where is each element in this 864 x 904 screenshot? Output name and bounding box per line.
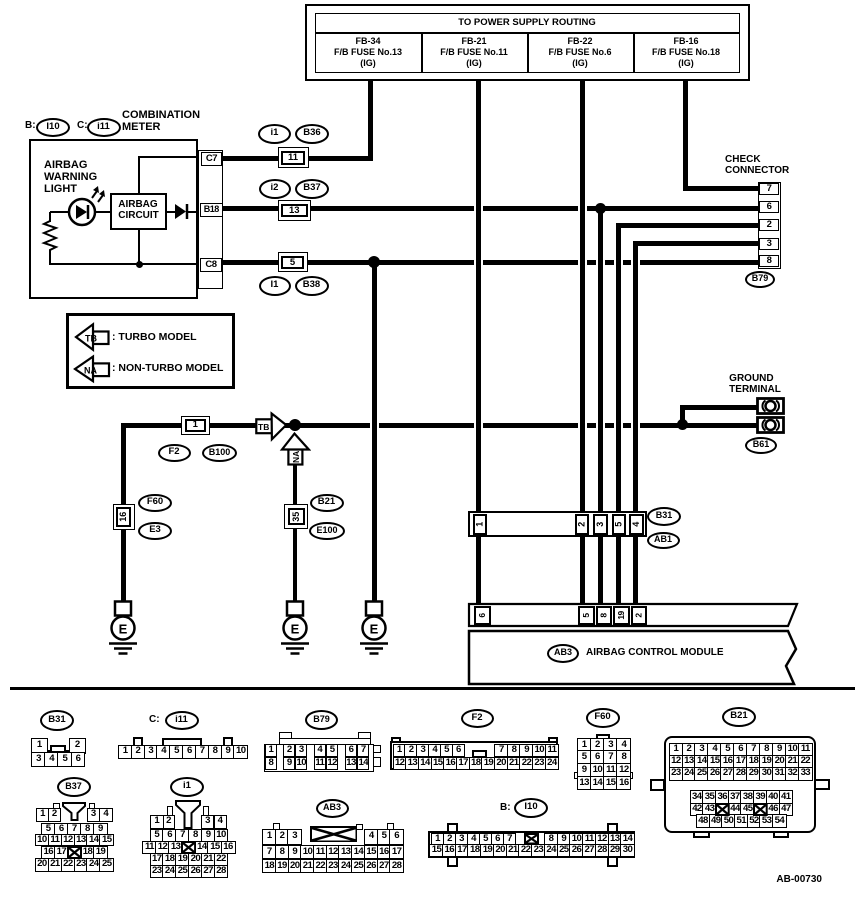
fuse label FB-16: [673, 37, 698, 47]
wire led to circuit: [93, 211, 111, 213]
label C:: [77, 121, 88, 132]
connector label I10: [36, 118, 70, 137]
i1 key way: [175, 800, 201, 829]
connector label i11: [87, 118, 121, 137]
connector 13 (i2/B37): [278, 200, 312, 221]
junction C8/E3: [368, 256, 380, 268]
wire bottom horizontal to C8: [49, 263, 201, 265]
combination meter box: [29, 139, 198, 299]
ground E2: [279, 600, 311, 658]
connector pinout i1: [0, 0, 1, 1]
junction meter bottom: [136, 261, 143, 268]
connector label B79: [745, 271, 775, 288]
wire E1 ground drop: [121, 425, 126, 602]
NA arrow (non-turbo model wire): [279, 431, 311, 466]
wire E2 ground drop: [293, 463, 298, 602]
ground E1: [107, 600, 139, 658]
power box title divider: [315, 32, 740, 34]
connector pinout B37: [0, 0, 1, 1]
wire circuit bottom vertical: [138, 229, 140, 265]
power supply routing box: [305, 4, 750, 81]
title TO POWER SUPPLY ROUTING: [458, 18, 596, 28]
label COMBINATION METER: [122, 110, 200, 134]
label AIRBAG CONTROL MODULE: [586, 648, 724, 659]
connector label I1: [259, 276, 291, 296]
wire circuit top vertical: [138, 157, 140, 194]
power box col divider 2: [527, 32, 529, 73]
drawing number AB-00730: [776, 875, 822, 886]
svg-text:E: E: [370, 622, 379, 637]
wire fuse4 to pin7: [683, 186, 759, 191]
section divider: [10, 687, 855, 690]
wire check pin3 drop: [633, 243, 638, 605]
meter connector strip: [198, 150, 223, 289]
label CHECK CONNECTOR: [725, 155, 789, 177]
connector label i1: [258, 124, 291, 144]
label GROUND TERMINAL: [729, 374, 781, 396]
junction B18/check: [595, 203, 606, 214]
connector pinout B31: [0, 0, 1, 1]
connector label B37: [295, 179, 329, 199]
connector 35 (B21/E100): [284, 504, 308, 529]
connector pinout AB3: [0, 0, 1, 1]
wire check pin2 run: [616, 223, 759, 228]
connector label B31: [647, 507, 681, 526]
wire C8 run: [223, 260, 759, 265]
connector pinout F60: [0, 0, 1, 1]
airbag circuit box: [110, 193, 167, 230]
label B:: [25, 121, 36, 132]
ground terminal upper: [756, 397, 785, 415]
label AIRBAG WARNING LIGHT: [44, 160, 97, 196]
wire C7 run: [223, 156, 373, 161]
connector label i2: [259, 179, 291, 199]
wire ground upper: [680, 405, 759, 410]
wire B18 run: [223, 206, 759, 211]
power box col divider 1: [421, 32, 423, 73]
ground E3: [358, 600, 390, 658]
connector label B21: [310, 494, 344, 512]
connector label AB1: [647, 532, 680, 549]
connector 11 (i1/B36): [278, 147, 309, 168]
wire circuit to diode: [166, 211, 177, 213]
junction ground terminal: [677, 419, 688, 430]
wire diode to B18: [187, 211, 200, 213]
connector label B38: [295, 276, 329, 296]
fuse label FB-22: [567, 37, 592, 47]
connector pinout F2: [0, 0, 1, 1]
wire fuse4 drop: [683, 81, 688, 189]
diode D1: [174, 203, 190, 220]
wire B18 junction drop: [598, 207, 603, 605]
junction TB/NA: [289, 419, 301, 431]
wire turbo ground run: [121, 423, 684, 428]
wire fuse1 drop: [368, 81, 373, 161]
legend box: [66, 313, 235, 389]
wire left vertical upper: [49, 212, 51, 222]
svg-text:E: E: [291, 622, 300, 637]
connector label B36: [295, 124, 329, 144]
wire led left: [50, 211, 71, 213]
airbag warning light LED: [66, 183, 110, 228]
connector pinout B79: [0, 0, 1, 1]
check connector body: [758, 182, 781, 269]
harness connector strip B31/AB1: [468, 511, 647, 537]
connector label B61: [745, 437, 777, 454]
connector 16 (F60/E3): [113, 504, 135, 531]
legend NA arrow: [73, 354, 112, 384]
connector 1 (F2/B100): [181, 416, 210, 436]
connector label F60: [138, 494, 172, 512]
connector 5 (I1/B38): [278, 252, 308, 272]
wire fuse2 drop: [476, 81, 481, 605]
label NON-TURBO MODEL: [112, 363, 223, 374]
connector label E3: [138, 522, 172, 540]
fuse label FB-34: [355, 37, 380, 47]
wire top to C7: [138, 156, 200, 158]
label TURBO MODEL: [112, 332, 197, 343]
label AIRBAG CIRCUIT: [118, 200, 159, 222]
svg-text:TB: TB: [85, 333, 97, 343]
connector pinout i11: [0, 0, 1, 1]
airbag control module connector strip: [467, 602, 801, 688]
svg-text:NA: NA: [84, 365, 97, 375]
B37 key way: [62, 802, 86, 821]
legend TB arrow: [74, 322, 112, 352]
connector pinout B21: [0, 0, 1, 1]
resistor (warning light): [40, 218, 62, 254]
connector label F2: [158, 444, 191, 462]
power box col divider 3: [633, 32, 635, 73]
wire ground terminal vert: [680, 407, 685, 424]
wire left vertical lower: [49, 250, 51, 264]
connector label B100: [202, 444, 237, 462]
connector label AB3: [547, 644, 579, 663]
wire fuse3 drop: [580, 81, 585, 605]
ground terminal lower: [756, 416, 785, 434]
svg-text:NA: NA: [291, 451, 301, 463]
connector pinout I10: [0, 0, 1, 1]
wire check pin3 run: [633, 241, 759, 246]
TB arrow (turbo model wire): [254, 411, 290, 442]
fuse label FB-21: [461, 37, 486, 47]
svg-text:E: E: [119, 622, 128, 637]
svg-text:TB: TB: [258, 422, 269, 432]
connector label E100: [309, 522, 345, 540]
wire ground lower: [684, 423, 759, 428]
wire check pin2 drop: [616, 225, 621, 605]
wire E3 ground drop: [372, 262, 377, 602]
